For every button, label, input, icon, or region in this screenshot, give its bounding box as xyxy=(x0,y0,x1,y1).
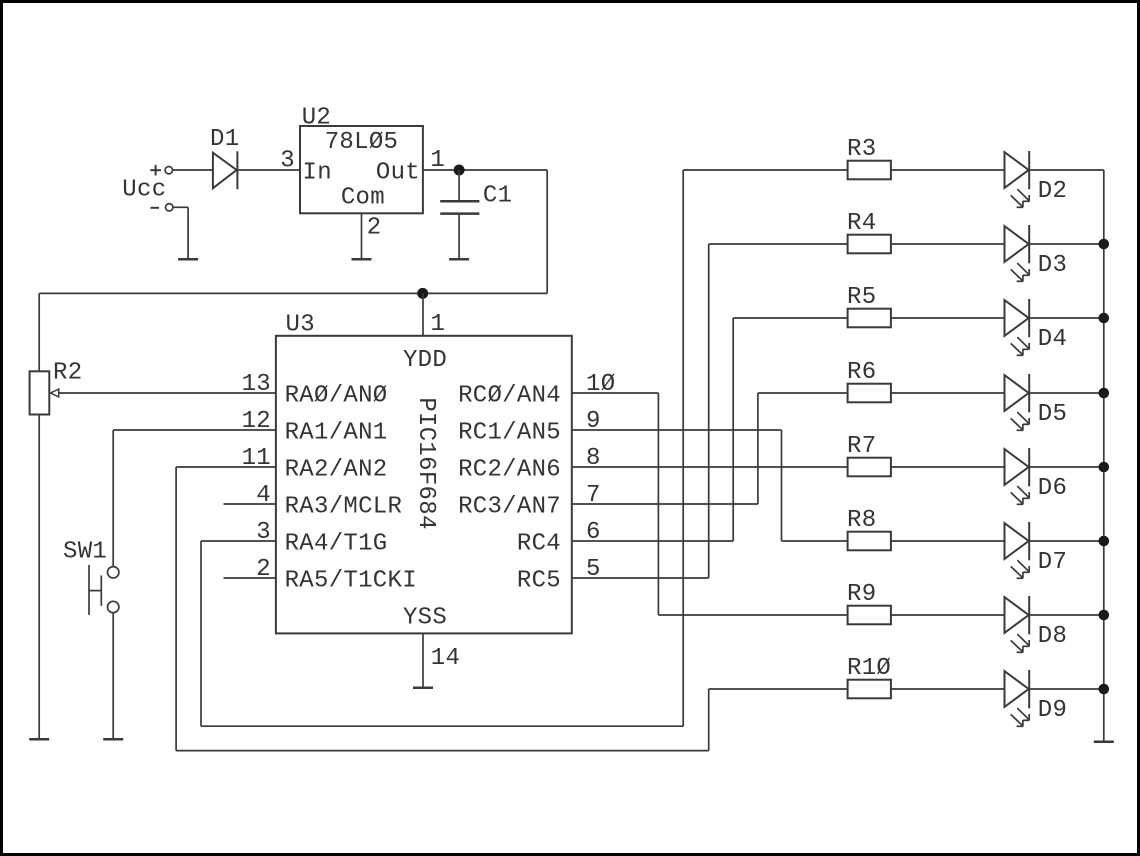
pin number right xyxy=(586,445,601,472)
LED D3 xyxy=(1005,225,1030,281)
wire xyxy=(732,318,734,541)
wire xyxy=(891,540,1005,542)
svg-text:RC4: RC4 xyxy=(517,531,561,558)
ground xyxy=(352,258,372,261)
capacitor C1 xyxy=(440,201,479,213)
pin number right xyxy=(586,371,615,398)
wire xyxy=(657,393,659,615)
pin number 13 xyxy=(242,371,271,398)
wire xyxy=(572,466,848,468)
wire xyxy=(458,214,460,260)
resistor R5 xyxy=(848,309,891,328)
wire xyxy=(708,689,710,751)
pin 2 name xyxy=(285,568,417,595)
LED D6 xyxy=(1005,448,1030,504)
wire xyxy=(891,392,1005,394)
label R10 xyxy=(847,655,891,682)
label D6 xyxy=(1038,475,1067,502)
LED D7 xyxy=(1005,522,1030,578)
label U2 xyxy=(302,105,331,132)
svg-text:2: 2 xyxy=(367,215,382,242)
label D7 xyxy=(1038,549,1067,576)
pin 8 name xyxy=(458,457,561,484)
svg-text:8: 8 xyxy=(586,445,601,472)
svg-text:D5: D5 xyxy=(1038,401,1067,428)
resistor R3 xyxy=(848,161,891,180)
wire xyxy=(38,293,40,371)
svg-text:U2: U2 xyxy=(302,105,331,132)
junction xyxy=(454,165,465,176)
svg-text:R8: R8 xyxy=(847,507,876,534)
label D5 xyxy=(1038,401,1067,428)
wire xyxy=(1029,614,1104,616)
label SW1 xyxy=(63,539,107,566)
Ucc minus terminal xyxy=(151,204,173,211)
svg-text:12: 12 xyxy=(242,408,271,435)
wire xyxy=(201,725,683,727)
microcontroller U3 PIC16F684 xyxy=(276,336,572,634)
label D9 xyxy=(1038,697,1067,724)
R2 wiper arrow xyxy=(51,389,59,397)
wire xyxy=(176,467,276,751)
svg-text:RA3/MCLR: RA3/MCLR xyxy=(285,494,403,521)
LED D5 xyxy=(1005,374,1030,430)
pin number 12 xyxy=(242,408,271,435)
junction xyxy=(1099,536,1110,547)
LED D2 xyxy=(1005,151,1030,207)
wire xyxy=(1029,688,1104,690)
wire xyxy=(422,293,424,335)
svg-text:6: 6 xyxy=(586,519,601,546)
ground xyxy=(178,258,198,261)
svg-text:R4: R4 xyxy=(847,210,876,237)
svg-text:RA1/AN1: RA1/AN1 xyxy=(285,420,388,447)
label R3 xyxy=(847,136,876,163)
svg-text:1: 1 xyxy=(431,311,446,338)
svg-text:13: 13 xyxy=(242,371,271,398)
svg-text:PIC16F684: PIC16F684 xyxy=(412,397,439,529)
pin 1 label xyxy=(431,311,446,338)
svg-text:RC5: RC5 xyxy=(517,568,561,595)
svg-text:D2: D2 xyxy=(1038,178,1067,205)
svg-text:RC3/AN7: RC3/AN7 xyxy=(458,494,561,521)
svg-text:SW1: SW1 xyxy=(63,539,107,566)
wire xyxy=(422,633,424,687)
wire xyxy=(891,169,1005,171)
wire xyxy=(572,392,659,394)
pin number right xyxy=(586,408,601,435)
wire xyxy=(891,317,1005,319)
wire xyxy=(1029,169,1104,171)
wire xyxy=(173,207,188,259)
wire xyxy=(781,430,783,541)
value PIC16F684 xyxy=(412,397,439,529)
switch SW1 xyxy=(89,565,119,615)
wire xyxy=(59,392,276,394)
svg-text:7: 7 xyxy=(586,482,601,509)
resistor R9 xyxy=(848,606,891,625)
svg-text:D3: D3 xyxy=(1038,252,1067,279)
pin number 11 xyxy=(242,445,271,472)
svg-text:D9: D9 xyxy=(1038,697,1067,724)
wire xyxy=(572,429,782,431)
label R7 xyxy=(847,433,876,460)
svg-text:C1: C1 xyxy=(483,182,512,209)
junction xyxy=(417,288,428,299)
pin 3 name xyxy=(285,531,388,558)
pin 1 label xyxy=(430,147,445,174)
wire xyxy=(708,244,710,578)
svg-text:5: 5 xyxy=(586,556,601,583)
svg-text:2: 2 xyxy=(256,556,271,583)
wire xyxy=(1029,540,1104,542)
svg-text:RA5/T1CKI: RA5/T1CKI xyxy=(285,568,417,595)
label D1 xyxy=(210,126,239,153)
wire xyxy=(658,614,847,616)
wire xyxy=(361,213,363,259)
node Ucc xyxy=(122,177,166,204)
ground xyxy=(103,738,123,741)
wire xyxy=(113,430,276,567)
wire xyxy=(224,577,276,579)
wire xyxy=(683,169,847,171)
pin 13 name xyxy=(285,383,388,410)
wire xyxy=(458,170,460,201)
pin 11 name xyxy=(285,457,388,484)
diode D1 xyxy=(213,151,238,189)
wire xyxy=(423,169,547,171)
LED D4 xyxy=(1005,299,1030,355)
wire xyxy=(201,541,276,726)
wire xyxy=(572,540,733,542)
svg-text:R1Ø: R1Ø xyxy=(847,655,891,682)
pin VDD label xyxy=(403,347,447,374)
label U3 xyxy=(286,312,315,339)
pin number right xyxy=(586,482,601,509)
wire xyxy=(572,503,758,505)
label R4 xyxy=(847,210,876,237)
label R6 xyxy=(847,359,876,386)
svg-text:D8: D8 xyxy=(1038,623,1067,650)
svg-text:Com: Com xyxy=(341,184,385,211)
junction xyxy=(1099,462,1110,473)
wire xyxy=(176,750,709,752)
ground xyxy=(29,738,49,741)
svg-text:3: 3 xyxy=(280,148,295,175)
pin Com label xyxy=(341,184,385,211)
wire xyxy=(891,688,1005,690)
pin 2 label xyxy=(367,215,382,242)
svg-text:D7: D7 xyxy=(1038,549,1067,576)
pin VSS label xyxy=(403,604,447,631)
pin number right xyxy=(586,556,601,583)
wire xyxy=(224,503,276,505)
wire xyxy=(709,243,848,245)
svg-text:D4: D4 xyxy=(1038,326,1067,353)
svg-text:D6: D6 xyxy=(1038,475,1067,502)
svg-text:RC1/AN5: RC1/AN5 xyxy=(458,420,561,447)
wire xyxy=(1029,392,1104,394)
ground xyxy=(1094,741,1114,744)
junction xyxy=(1099,239,1110,250)
resistor R7 xyxy=(848,458,891,477)
wire xyxy=(1029,317,1104,319)
svg-text:YSS: YSS xyxy=(403,604,447,631)
wire xyxy=(757,393,759,504)
svg-text:D1: D1 xyxy=(210,126,239,153)
pin 14 label xyxy=(431,645,460,672)
pin In label xyxy=(303,159,332,186)
label R2 xyxy=(53,359,82,386)
pin 4 name xyxy=(285,494,403,521)
ground xyxy=(413,687,433,690)
svg-text:11: 11 xyxy=(242,445,271,472)
resistor R10 xyxy=(848,680,891,699)
svg-text:R2: R2 xyxy=(53,359,82,386)
svg-text:9: 9 xyxy=(586,408,601,435)
pin 12 name xyxy=(285,420,388,447)
label R8 xyxy=(847,507,876,534)
label D8 xyxy=(1038,623,1067,650)
pin 10 name xyxy=(458,383,561,410)
wire xyxy=(546,170,548,293)
pin number 3 xyxy=(256,519,271,546)
svg-text:4: 4 xyxy=(256,482,271,509)
svg-text:78LØ5: 78LØ5 xyxy=(325,129,399,156)
svg-text:U3: U3 xyxy=(286,312,315,339)
wire xyxy=(237,169,300,171)
wire xyxy=(1029,243,1104,245)
junction xyxy=(1099,610,1110,621)
svg-text:RA4/T1G: RA4/T1G xyxy=(285,531,388,558)
wire xyxy=(1029,466,1104,468)
pin 5 name xyxy=(517,568,561,595)
wire xyxy=(891,614,1005,616)
resistor R8 xyxy=(848,532,891,551)
svg-text:14: 14 xyxy=(431,645,460,672)
pin 6 name xyxy=(517,531,561,558)
wire xyxy=(891,466,1005,468)
wire xyxy=(39,292,547,294)
pin number right xyxy=(586,519,601,546)
wire xyxy=(572,577,709,579)
wire xyxy=(709,688,848,690)
label D3 xyxy=(1038,252,1067,279)
junction xyxy=(1099,388,1110,399)
label C1 xyxy=(483,182,512,209)
LED D8 xyxy=(1005,596,1030,652)
svg-text:R6: R6 xyxy=(847,359,876,386)
pin number 4 xyxy=(256,482,271,509)
label D4 xyxy=(1038,326,1067,353)
wire xyxy=(782,540,848,542)
wire xyxy=(112,613,114,740)
wire xyxy=(173,169,213,171)
wire xyxy=(891,243,1005,245)
pin 9 name xyxy=(458,420,561,447)
svg-text:YDD: YDD xyxy=(403,347,447,374)
resistor R4 xyxy=(848,235,891,254)
resistor R6 xyxy=(848,384,891,403)
svg-text:R9: R9 xyxy=(847,581,876,608)
wire xyxy=(1103,170,1105,742)
svg-text:RA2/AN2: RA2/AN2 xyxy=(285,457,388,484)
potentiometer R2 xyxy=(30,371,50,414)
pin 7 name xyxy=(458,494,561,521)
pin Out label xyxy=(376,159,420,186)
wire xyxy=(682,170,684,726)
svg-text:RCØ/AN4: RCØ/AN4 xyxy=(458,383,561,410)
wire xyxy=(758,392,848,394)
regulator U2 78L05 xyxy=(300,126,423,213)
svg-text:R3: R3 xyxy=(847,136,876,163)
Ucc plus terminal xyxy=(150,165,172,176)
LED D9 xyxy=(1005,670,1030,726)
svg-text:3: 3 xyxy=(256,519,271,546)
value 78L05 xyxy=(325,129,399,156)
svg-text:R5: R5 xyxy=(847,284,876,311)
wire xyxy=(733,317,847,319)
svg-text:In: In xyxy=(303,159,332,186)
label R9 xyxy=(847,581,876,608)
svg-text:RC2/AN6: RC2/AN6 xyxy=(458,457,561,484)
label R5 xyxy=(847,284,876,311)
junction xyxy=(1099,313,1110,324)
pin number 2 xyxy=(256,556,271,583)
wire xyxy=(38,415,40,740)
svg-text:1Ø: 1Ø xyxy=(586,371,615,398)
svg-text:R7: R7 xyxy=(847,433,876,460)
svg-text:Ucc: Ucc xyxy=(122,177,166,204)
ground xyxy=(449,258,469,261)
svg-text:Out: Out xyxy=(376,159,420,186)
label D2 xyxy=(1038,178,1067,205)
junction xyxy=(1099,684,1110,695)
svg-text:RAØ/ANØ: RAØ/ANØ xyxy=(285,383,388,410)
pin 3 label xyxy=(280,148,295,175)
